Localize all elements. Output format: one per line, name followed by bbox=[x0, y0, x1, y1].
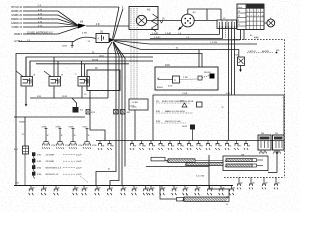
connector x-boxes mid bbox=[114, 110, 119, 115]
svg-text:9: 9 bbox=[258, 15, 259, 17]
svg-text:RD/BK 25: RD/BK 25 bbox=[11, 10, 22, 13]
ECU 5/1 box bbox=[153, 95, 284, 141]
svg-text:7/9B: 7/9B bbox=[133, 145, 136, 147]
svg-text:57/3B: 57/3B bbox=[56, 126, 62, 128]
svg-text:130: 130 bbox=[163, 188, 166, 190]
NC box bbox=[197, 102, 203, 107]
shielded cable bar mid bbox=[186, 163, 223, 166]
wire 135 drop bbox=[134, 110, 136, 141]
wire splice diag to 44 bus bbox=[114, 41, 257, 45]
wire nest 3 bbox=[30, 61, 153, 77]
svg-text:130: 130 bbox=[32, 188, 35, 190]
shielded cable bar upper bbox=[168, 159, 195, 163]
wire splice up to bus 30 bbox=[113, 7, 120, 39]
svg-text:130: 130 bbox=[252, 182, 255, 184]
wire coil to distributor 16 bbox=[147, 20, 182, 22]
ground distribution list bbox=[32, 152, 35, 156]
svg-text:4 R: 4 R bbox=[96, 24, 100, 26]
svg-text:BN/B 6: BN/B 6 bbox=[14, 33, 22, 36]
wire splice feed right bus bbox=[114, 39, 240, 41]
svg-text:INJECTOR 2.5GN AT-GN 4/10R: INJECTOR 2.5GN AT-GN 4/10R bbox=[162, 100, 194, 103]
wire LH 2.4 harness line bbox=[23, 27, 79, 34]
svg-text:BLACK: BLACK bbox=[157, 86, 164, 89]
svg-text:23 GN/R: 23 GN/R bbox=[46, 161, 55, 163]
wire 31 ground lead to battery bbox=[19, 41, 71, 43]
svg-text:130: 130 bbox=[98, 188, 101, 190]
svg-text:VO/BK 13: VO/BK 13 bbox=[11, 26, 22, 29]
wire fan lines converging bbox=[23, 11, 79, 26]
svg-text:57/3B: 57/3B bbox=[69, 126, 75, 128]
wire mid horizontal 98 bbox=[30, 98, 108, 107]
svg-text:31DB: 31DB bbox=[62, 46, 67, 48]
svg-text:130: 130 bbox=[186, 188, 189, 190]
svg-text:-: - bbox=[106, 37, 107, 41]
svg-text:8: 8 bbox=[254, 15, 255, 17]
connector 1B box bbox=[273, 135, 285, 150]
svg-text:130: 130 bbox=[152, 188, 155, 190]
svg-text:1.5 RT: 1.5 RT bbox=[154, 37, 161, 39]
injector 8/37 no3 bbox=[78, 77, 90, 87]
junction box 13/35 bbox=[129, 99, 148, 110]
svg-text:MOTRONIC 4.3: MOTRONIC 4.3 bbox=[46, 168, 62, 170]
svg-text:BARO 0.5 GN 43/10: BARO 0.5 GN 43/10 bbox=[165, 110, 186, 113]
svg-text:4/7D: 4/7D bbox=[168, 86, 173, 88]
rotor arrow bbox=[179, 26, 183, 30]
svg-text:1.5 GN: 1.5 GN bbox=[210, 42, 217, 44]
svg-text:7/9B: 7/9B bbox=[101, 145, 104, 147]
wire splice down-left to relay bbox=[108, 42, 112, 98]
ignition switch circle bbox=[267, 19, 275, 27]
svg-text:GN/RD 21: GN/RD 21 bbox=[11, 22, 23, 25]
wire splice to vertical bundle bbox=[96, 42, 116, 186]
svg-text:7/9B: 7/9B bbox=[218, 145, 221, 147]
dotted verticals below coil bbox=[130, 30, 132, 100]
svg-text:(-16-P: (-16-P bbox=[76, 168, 82, 170]
svg-text:15/54: 15/54 bbox=[99, 55, 104, 57]
svg-text:7/9B: 7/9B bbox=[152, 145, 155, 147]
dashed link to connector bbox=[180, 78, 199, 81]
wire connector pins down bbox=[228, 29, 230, 141]
svg-text:7/9B: 7/9B bbox=[228, 145, 231, 147]
svg-text:4/46: 4/46 bbox=[254, 38, 259, 40]
svg-text:130: 130 bbox=[110, 188, 113, 190]
splice junction arrowhead B+ bbox=[109, 38, 115, 42]
svg-text:1 AT9-R: 1 AT9-R bbox=[248, 50, 256, 53]
svg-text:130: 130 bbox=[76, 188, 79, 190]
svg-text:3: 3 bbox=[254, 11, 255, 13]
svg-text:31A/B: 31A/B bbox=[19, 121, 25, 124]
distributor 4/4 circle bbox=[181, 14, 194, 27]
svg-text:GN/BK 20: GN/BK 20 bbox=[11, 14, 22, 17]
svg-text:130: 130 bbox=[135, 188, 138, 190]
connector splice 6/9 arrowhead bbox=[78, 24, 86, 29]
svg-text:(-16-P: (-16-P bbox=[76, 161, 82, 163]
wire top bus 30 bbox=[23, 6, 119, 8]
svg-text:7: 7 bbox=[251, 15, 252, 17]
svg-text:130: 130 bbox=[175, 188, 178, 190]
wire nest 4 bbox=[36, 63, 129, 65]
svg-text:57/3C: 57/3C bbox=[83, 126, 89, 128]
svg-text:7/9B: 7/9B bbox=[247, 145, 250, 147]
svg-text:130: 130 bbox=[44, 188, 47, 190]
wire 4R feed to coil box bbox=[86, 25, 129, 27]
coil resistor zigzag bbox=[152, 14, 158, 32]
svg-text:2 SB: 2 SB bbox=[183, 77, 188, 79]
coil circle bbox=[136, 15, 146, 25]
svg-text:31/35: 31/35 bbox=[62, 96, 68, 98]
wire fuse box drops bbox=[240, 30, 242, 41]
svg-text:31: 31 bbox=[238, 24, 240, 26]
wire distributor to switch connector bbox=[194, 20, 217, 22]
svg-text:130: 130 bbox=[146, 188, 149, 190]
svg-text:RD/GN: RD/GN bbox=[204, 72, 211, 74]
resistor pack 20/48 bbox=[73, 107, 79, 113]
svg-text:+: + bbox=[97, 37, 99, 41]
svg-text:130: 130 bbox=[57, 188, 60, 190]
wire battery to splice bbox=[109, 39, 114, 41]
wire left harness outer bbox=[122, 6, 123, 8]
connector strip 15 bbox=[217, 20, 237, 29]
svg-text:5: 5 bbox=[262, 11, 263, 13]
svg-text:23 GN/R: 23 GN/R bbox=[46, 155, 55, 157]
svg-text:1.5 B: 1.5 B bbox=[130, 106, 135, 108]
component 6/33 box bbox=[238, 57, 245, 66]
svg-text:1.5GN: 1.5GN bbox=[182, 93, 188, 95]
svg-text:7/9B: 7/9B bbox=[199, 145, 202, 147]
svg-text:57/3A: 57/3A bbox=[42, 125, 48, 128]
connector pins below 1A 1B bbox=[260, 150, 263, 154]
wire nest 2 bbox=[26, 57, 153, 77]
wire drop to ignition connector bbox=[206, 9, 208, 20]
connector 1A box bbox=[258, 135, 271, 150]
svg-text:4: 4 bbox=[258, 11, 259, 13]
svg-text:130: 130 bbox=[265, 182, 268, 184]
central fuse box 11/1 bbox=[237, 4, 264, 30]
svg-text:7/9B: 7/9B bbox=[110, 145, 113, 147]
svg-text:130: 130 bbox=[232, 188, 235, 190]
svg-text:30: 30 bbox=[238, 11, 240, 13]
coil internal dotted wires bbox=[130, 8, 132, 29]
bus drop connectors bbox=[29, 186, 34, 196]
svg-text:6 SB: 6 SB bbox=[82, 33, 87, 35]
ground bus wire bbox=[14, 185, 233, 187]
svg-text:7/9B: 7/9B bbox=[190, 145, 193, 147]
sensor triangle 6/35 bbox=[182, 103, 187, 107]
svg-text:6: 6 bbox=[247, 15, 248, 17]
main relay 6/16 box bbox=[87, 70, 120, 91]
svg-text:2: 2 bbox=[251, 11, 252, 13]
svg-text:(-16-P: (-16-P bbox=[76, 155, 82, 157]
svg-text:7/9B: 7/9B bbox=[161, 145, 164, 147]
ECU bottom drop connectors bbox=[238, 177, 240, 184]
svg-text:7/9B: 7/9B bbox=[180, 145, 183, 147]
connector blob RD bbox=[210, 74, 215, 79]
wire drops into bus bbox=[208, 155, 210, 186]
svg-text:(-16-P: (-16-P bbox=[76, 174, 82, 176]
svg-text:10 LB11 MOTRONIC 4.3: 10 LB11 MOTRONIC 4.3 bbox=[27, 32, 53, 34]
injector 8/36 no2 bbox=[49, 77, 61, 87]
connector x-box right bbox=[86, 110, 90, 115]
svg-text:7/9B: 7/9B bbox=[171, 145, 174, 147]
svg-text:31: 31 bbox=[222, 107, 224, 109]
svg-text:130: 130 bbox=[277, 182, 280, 184]
pin row line bbox=[96, 140, 284, 142]
wire splice diag to 49 bus bbox=[114, 41, 239, 57]
fuse grid bbox=[249, 9, 251, 30]
svg-text:ANTER: ANTER bbox=[262, 50, 270, 53]
svg-text:RD/GN: RD/GN bbox=[92, 59, 99, 61]
injector 8/35 no1 bbox=[21, 77, 33, 87]
svg-text:KNOCK 0.5 GN: KNOCK 0.5 GN bbox=[165, 121, 181, 123]
svg-text:130: 130 bbox=[85, 188, 88, 190]
svg-text:1.5 BN: 1.5 BN bbox=[132, 102, 139, 104]
dotted leader curve bbox=[80, 176, 88, 183]
wire 31A/B drop bbox=[24, 117, 26, 146]
small dark box 14/35 bbox=[190, 125, 195, 130]
ground terminal 31DB bbox=[71, 42, 74, 48]
svg-text:14/35: 14/35 bbox=[182, 126, 188, 128]
injector wires no1 bbox=[25, 57, 27, 77]
wire distributor top feed bbox=[188, 9, 221, 14]
svg-text:7/9B: 7/9B bbox=[142, 145, 145, 147]
ECU 4/46 dashed enclosure bbox=[233, 39, 285, 41]
shield box with twisted pairs bbox=[223, 156, 268, 171]
svg-text:BN/RD 14: BN/RD 14 bbox=[11, 18, 22, 21]
wire bus 38.5 bbox=[150, 38, 223, 40]
battery 3/1 bbox=[96, 34, 109, 43]
ignition coil 4/3 box bbox=[129, 7, 158, 30]
throttle module 4/18 box bbox=[155, 67, 218, 90]
wire bus 34.5 bbox=[150, 34, 220, 36]
svg-text:MODULE 1.5: MODULE 1.5 bbox=[46, 174, 60, 176]
svg-text:4 1.5 SB: 4 1.5 SB bbox=[196, 176, 205, 178]
junction block 31/8 bbox=[23, 146, 29, 154]
svg-text:BT/GN 16: BT/GN 16 bbox=[11, 6, 22, 9]
wire battery ground arc bbox=[73, 37, 96, 42]
svg-text:1: 1 bbox=[247, 11, 248, 13]
svg-text:4/18: 4/18 bbox=[165, 64, 170, 67]
svg-text:15: 15 bbox=[238, 16, 240, 18]
svg-text:30: 30 bbox=[92, 52, 94, 54]
svg-text:7/9B: 7/9B bbox=[237, 145, 240, 147]
svg-text:7/9B: 7/9B bbox=[209, 145, 212, 147]
injector wires no2 bbox=[53, 57, 55, 77]
svg-text:10: 10 bbox=[262, 15, 264, 17]
svg-text:130: 130 bbox=[124, 188, 127, 190]
svg-text:130: 130 bbox=[198, 188, 201, 190]
left box bottom bbox=[14, 116, 85, 118]
shielded cable bar bottom bbox=[184, 197, 229, 202]
switch sub box bbox=[173, 76, 180, 83]
svg-text:130: 130 bbox=[240, 182, 243, 184]
pin connectors row under ECU bbox=[98, 141, 102, 151]
